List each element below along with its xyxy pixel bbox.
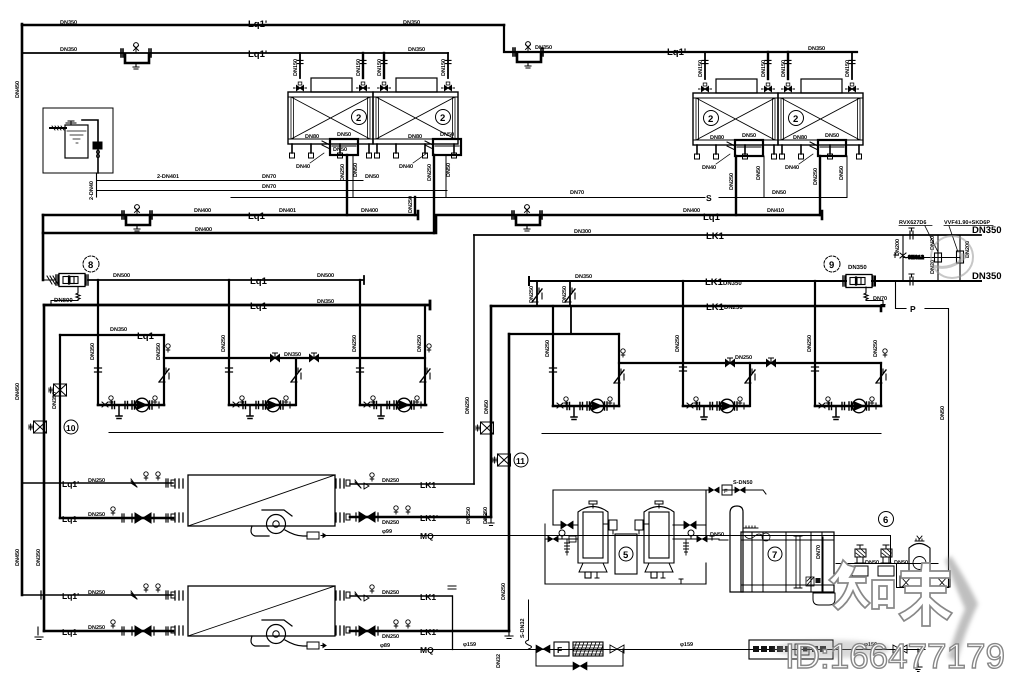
svg-text:DN250: DN250 (545, 340, 551, 357)
svg-text:DN410: DN410 (767, 208, 784, 214)
check valve circuit 2 (291, 368, 301, 382)
svg-text:DN50: DN50 (365, 174, 379, 180)
circuit 4 top header (509, 333, 619, 335)
expansion tank enclosure (43, 108, 113, 173)
wire MQ line chiller1 (325, 536, 891, 564)
wire pump8 bypass DN300 (51, 287, 80, 305)
check valve riser b (565, 288, 575, 302)
svg-text:DN450: DN450 (15, 383, 21, 400)
svg-text:φ159: φ159 (680, 642, 693, 648)
circuit 1 top header Lq1 DN350 (60, 334, 164, 336)
wire unit5 left riser top connect (544, 524, 546, 539)
svg-text:DN50: DN50 (484, 400, 490, 414)
svg-text:DN40: DN40 (296, 164, 310, 170)
svg-text:DN250: DN250 (735, 355, 752, 361)
wire Lq1 DN350 header thick (44, 301, 430, 309)
tower T2 number 2 (436, 110, 451, 125)
wire drain to header end (414, 197, 416, 215)
valve tank loop left (561, 521, 573, 529)
wire unit7 drain (813, 537, 835, 605)
wire T3 drain DN250 (735, 156, 737, 215)
wire valve station branch (903, 257, 960, 259)
wire circuit 3 right vertical (424, 305, 426, 405)
valve circuit 6 left (812, 367, 819, 371)
svg-text:DN50: DN50 (440, 132, 454, 138)
valve near line end (893, 645, 907, 653)
cooling tower T3 riser 2 (761, 52, 775, 92)
cooling tower T4 riser 2 (845, 52, 859, 92)
svg-text:LK1: LK1 (706, 231, 725, 242)
svg-text:Lq1': Lq1' (248, 19, 267, 30)
svg-text:6: 6 (883, 515, 888, 526)
wire line end elbow (914, 649, 922, 672)
svg-text:Lq1: Lq1 (62, 627, 77, 637)
air separator unit box (749, 640, 833, 659)
svg-text:DN50: DN50 (353, 163, 359, 177)
svg-text:φ99: φ99 (382, 529, 392, 535)
hatch drain left (565, 539, 570, 555)
svg-text:DN70: DN70 (262, 184, 276, 190)
wire chiller1 Lq1 return (60, 517, 173, 520)
valve circuit 2 left (226, 368, 233, 372)
wire circuit 3 left vertical (359, 280, 361, 405)
svg-text:2: 2 (356, 113, 361, 124)
svg-text:DN50: DN50 (337, 132, 351, 138)
label Γ (710, 536, 714, 540)
wire S-DN50 branch (706, 490, 766, 494)
fittings (394, 506, 410, 514)
svg-text:DN250: DN250 (382, 520, 399, 526)
butterfly valve chiller1 left (132, 513, 154, 523)
softener tanks unit 5 : outer loop (545, 490, 719, 584)
wire circuit 4 riser a (536, 281, 538, 306)
svg-text:LK1': LK1' (420, 513, 438, 523)
svg-text:DN40: DN40 (702, 165, 716, 171)
wire Lq1' second header DN350 left (22, 52, 448, 54)
svg-text:DN450: DN450 (15, 81, 21, 98)
svg-text:DN250: DN250 (88, 512, 105, 518)
gauge left (559, 530, 565, 539)
svg-text:F: F (724, 488, 728, 495)
svg-text:DN250: DN250 (483, 507, 489, 524)
cooling tower T2 riser 2 (441, 53, 455, 91)
filter assembly on right Lq1' header (513, 42, 543, 68)
svg-text:Lq1: Lq1 (248, 211, 266, 222)
svg-text:2-DN40: 2-DN40 (89, 181, 95, 200)
wire S-DN40 line (97, 180, 364, 182)
valve tank loop right (684, 521, 696, 529)
instrument box right b (493, 453, 528, 467)
svg-text:DN350: DN350 (156, 343, 162, 360)
wire circuit 5 right vertical (749, 363, 751, 406)
check valve circuit 6 (876, 369, 886, 383)
valve circuit 4 left (550, 368, 557, 372)
svg-text:DN80: DN80 (710, 135, 724, 141)
wire DN350 LK1 header right (529, 277, 981, 285)
pump unit 8 (43, 256, 99, 287)
valve circuit 5 left (680, 367, 687, 371)
label DN40 with leader (785, 154, 813, 171)
wire chiller2 Lq1 return (44, 630, 173, 633)
wire DN400 lower header and jog (43, 211, 822, 233)
skid base unit 6 (900, 576, 950, 587)
filter F box (554, 642, 569, 656)
wire bottom drain line (325, 649, 925, 651)
svg-text:DN250: DN250 (729, 173, 735, 190)
fittings chiller1 top-left (131, 472, 168, 487)
wire drain from expansion tank (96, 173, 98, 197)
svg-text:DN40: DN40 (399, 164, 413, 170)
small box left (569, 536, 576, 542)
wire chiller1 LK1' return (350, 516, 491, 519)
wire riser to chiller1 (59, 335, 61, 518)
svg-text:DN350: DN350 (90, 343, 96, 360)
svg-text:DN250: DN250 (466, 507, 472, 524)
pump row circuit 3 (360, 396, 426, 419)
svg-text:φ159: φ159 (463, 642, 476, 648)
fittings chiller1 top-right (355, 473, 374, 489)
svg-text:8: 8 (88, 260, 93, 271)
valve on drain (536, 645, 550, 653)
water treatment unit 7 frame (730, 506, 834, 592)
wire circuit 4 right vertical (618, 334, 620, 406)
gauge circuit 6 (883, 349, 887, 357)
ground tick LK1' end (486, 513, 494, 526)
svg-text:5: 5 (623, 550, 629, 561)
gauge circuit 1 (166, 344, 170, 352)
svg-text:Lq1: Lq1 (137, 331, 155, 342)
check valve circuit 5 (745, 369, 755, 383)
svg-text:DN40: DN40 (785, 165, 799, 171)
drain hatch box (806, 577, 814, 586)
svg-text:DN350: DN350 (36, 549, 42, 566)
svg-text:DN50: DN50 (940, 406, 946, 420)
label DN40 with leader (702, 154, 730, 171)
svg-text:DN50: DN50 (742, 133, 756, 139)
svg-text:P: P (910, 304, 916, 314)
svg-text:DN150: DN150 (441, 59, 447, 76)
svg-text:DN150: DN150 (698, 60, 704, 77)
valve station vertical DN200 (902, 235, 904, 281)
wire Lq1 DN400 header left (43, 211, 418, 219)
svg-text:2-DN401: 2-DN401 (157, 174, 179, 180)
gauge right (688, 530, 694, 539)
gauge circuit 3 (427, 344, 431, 352)
svg-text:DN150: DN150 (845, 60, 851, 77)
valves feed left (548, 536, 558, 542)
svg-text:Lq1': Lq1' (667, 47, 686, 58)
wire circuit 4 riser b (569, 281, 571, 306)
wire chiller2 LK1' return (350, 630, 509, 633)
svg-text:DN80: DN80 (793, 135, 807, 141)
svg-text:DN50: DN50 (756, 166, 762, 180)
wire Lq1 DN500 header (88, 276, 364, 284)
wire DN450 left main riser (21, 24, 24, 595)
pump row circuit 5 (683, 397, 749, 420)
butterfly valve chiller2 right (356, 626, 378, 636)
svg-text:DN250: DN250 (340, 164, 346, 181)
svg-text:DN450: DN450 (15, 549, 21, 566)
check valve riser a (532, 288, 542, 302)
left group base line (109, 432, 443, 434)
tower T1 number 2 (352, 110, 367, 125)
svg-text:DN250: DN250 (529, 286, 535, 303)
svg-text:DN350: DN350 (575, 274, 592, 280)
manifold valve 4 (767, 358, 776, 367)
svg-text:DN250: DN250 (724, 304, 743, 311)
svg-text:DN70: DN70 (262, 174, 276, 180)
check valve circuit 1 (159, 368, 169, 382)
svg-text:S-DN50: S-DN50 (733, 480, 753, 486)
svg-text:DN70: DN70 (816, 545, 822, 559)
svg-text:DN350: DN350 (60, 47, 77, 53)
label VVF41.90+SKD6P (944, 220, 993, 252)
wire circuit 1 left vertical (97, 280, 99, 405)
chiller 2 body (171, 586, 350, 636)
pump row circuit 6 (815, 397, 881, 420)
svg-text:DN350: DN350 (60, 20, 77, 26)
chiller 2 pump (251, 620, 326, 649)
label DN40 with leader (399, 153, 427, 170)
manifold DN350 (164, 357, 425, 359)
fittings (394, 620, 410, 628)
instrument box with sensor left a (49, 384, 67, 396)
cooling tower T3 (693, 79, 778, 159)
watermark logo circle top right (931, 236, 973, 278)
hatch drain right (684, 539, 689, 555)
wire pump suction line (836, 563, 938, 565)
svg-text:DN350: DN350 (972, 225, 1002, 236)
wire DN70 line (97, 190, 448, 192)
svg-text:MQ: MQ (420, 531, 434, 541)
svg-text:Lq1: Lq1 (250, 301, 268, 312)
wire bypass loop (536, 649, 623, 666)
wire left riser to pump 8 (42, 215, 45, 280)
pump row circuit 4 (553, 397, 619, 420)
svg-text:DN70: DN70 (570, 190, 584, 196)
watermark character zhi (829, 560, 894, 610)
svg-text:LK1: LK1 (705, 277, 724, 288)
svg-text:LK1: LK1 (420, 592, 436, 602)
svg-text:DN350: DN350 (110, 327, 127, 333)
svg-text:DN70: DN70 (873, 296, 887, 302)
svg-text:DN350: DN350 (408, 47, 425, 53)
svg-text:DN250: DN250 (408, 196, 414, 213)
valve station vertical 2 (937, 235, 939, 281)
wire circuit 5 left vertical (682, 281, 684, 406)
svg-text:DN50: DN50 (839, 166, 845, 180)
svg-text:DN250: DN250 (465, 397, 471, 414)
softener tank B (644, 501, 674, 578)
valve on drain right of boxes (610, 645, 624, 653)
pump unit 9 (824, 256, 875, 288)
label 6 (879, 512, 894, 527)
fittings chiller2 top-left (131, 584, 168, 599)
svg-text:DN350: DN350 (284, 352, 301, 358)
wire S-DN32 drop (526, 600, 532, 649)
svg-text:DN350: DN350 (317, 299, 334, 305)
svg-text:Lq1': Lq1' (248, 49, 267, 60)
check valve circuit 4 (614, 369, 624, 383)
gauge circuit 4 (621, 349, 625, 357)
F box small (722, 485, 732, 495)
wire chiller1 LK1 out (350, 483, 474, 485)
wire circuit 6 left vertical (814, 281, 816, 406)
union (448, 586, 456, 589)
wire DN300 LK1 header (474, 234, 981, 236)
filter assembly on Lq1 DN400 right (512, 205, 542, 231)
valve 9E612 (894, 253, 924, 262)
manifold valve 2 (310, 353, 319, 362)
svg-text:9: 9 (829, 260, 834, 271)
wire circuit 4 drop b (570, 306, 572, 334)
manifold valve 1 (271, 353, 280, 362)
fittings chiller2 top-right (355, 585, 374, 601)
svg-text:DN500: DN500 (317, 273, 334, 279)
svg-text:DN250: DN250 (813, 168, 819, 185)
svg-text:φ89: φ89 (380, 643, 390, 649)
svg-text:DN50: DN50 (333, 147, 347, 153)
svg-text:2: 2 (793, 114, 798, 125)
wire riser LK1' from header (490, 306, 493, 517)
label DN40 with leader (296, 153, 324, 170)
svg-text:DN150: DN150 (377, 59, 383, 76)
tower T2 basin piping (425, 139, 461, 155)
wire Lq1' top header DN350 (22, 24, 504, 27)
svg-text:11: 11 (516, 456, 525, 466)
ground tick (35, 627, 43, 640)
svg-text:DN350: DN350 (723, 280, 742, 287)
wire left riser DN350 to chiller2 (43, 305, 46, 631)
wire P drop connect (897, 564, 949, 588)
svg-text:DN350: DN350 (808, 46, 825, 52)
ground tick chiller2 LK1' (505, 631, 513, 639)
svg-text:LK1': LK1' (420, 627, 438, 637)
svg-text:7: 7 (772, 550, 777, 561)
svg-text:DN250: DN250 (675, 335, 681, 352)
fittings chiller1 bottom-left (111, 507, 168, 522)
instrument box right a (476, 422, 494, 434)
cooling tower T2 riser 1 (377, 53, 391, 91)
svg-text:DN80: DN80 (408, 134, 422, 140)
manifold valve 3 (726, 358, 735, 367)
wire jog to right header (504, 25, 857, 52)
svg-text:DN250: DN250 (221, 335, 227, 352)
svg-text:DN250: DN250 (382, 590, 399, 596)
svg-text:DN800: DN800 (54, 297, 73, 304)
svg-text:DN250: DN250 (873, 340, 879, 357)
svg-text:DN32: DN32 (496, 654, 502, 668)
dosing pump A (852, 545, 868, 576)
wire riser to chiller2 LK1' (508, 334, 511, 631)
valve on bypass (573, 662, 587, 670)
hatched filter box (573, 642, 603, 656)
wire P line (896, 281, 949, 588)
filter assembly on Lq1 DN400 left (122, 205, 152, 231)
wire circuit 6 right vertical (880, 363, 882, 406)
cooling tower T4 (778, 79, 863, 159)
svg-text:DN500: DN500 (113, 273, 130, 279)
wire riser DN300 to chiller1 (473, 235, 475, 484)
svg-text:2: 2 (708, 114, 713, 125)
wire T2 drain DN50 (445, 155, 447, 197)
wire LK1 DN250 header (491, 306, 884, 311)
cooling tower T2 (373, 78, 458, 158)
svg-text:DN250: DN250 (501, 583, 507, 600)
svg-text:DN350: DN350 (848, 264, 867, 271)
svg-text:DN400: DN400 (194, 208, 211, 214)
svg-text:Lq1: Lq1 (62, 514, 77, 524)
watermark character mo (899, 563, 952, 626)
wire LK1 drop to drain (452, 596, 454, 650)
chiller 1 pump (251, 510, 326, 539)
control valve body (957, 251, 964, 263)
fittings chiller2 bottom-left (111, 620, 168, 635)
valve station vertical 3 (959, 235, 961, 281)
pump row circuit 1 (98, 396, 164, 419)
wire T3 drain DN50 (763, 156, 765, 197)
valves S-DN50 b (735, 487, 745, 493)
valve on DN300 header (909, 228, 914, 239)
chiller 1 body (171, 475, 350, 526)
svg-text:MQ: MQ (420, 645, 434, 655)
wire chiller1 Lq1' supply (22, 482, 173, 484)
valves S-DN50 (709, 487, 719, 493)
svg-text:DN80: DN80 (305, 134, 319, 140)
svg-text:DN350: DN350 (403, 20, 420, 26)
label RVX627D6 (899, 220, 938, 252)
watermark swoosh (774, 556, 978, 662)
tower T4 basin piping (810, 140, 846, 156)
svg-text:DN150: DN150 (761, 60, 767, 77)
wire T4 drain DN50 (846, 156, 848, 197)
cooling tower T3 riser 1 (698, 52, 712, 92)
svg-text:DN400: DN400 (683, 208, 700, 214)
svg-text:DN150: DN150 (293, 59, 299, 76)
solenoid valve (935, 253, 942, 262)
valve circuit 1 left (95, 368, 102, 372)
svg-text:Lq1': Lq1' (62, 479, 79, 489)
cooling tower T1 (288, 78, 373, 158)
svg-text:DN250: DN250 (352, 335, 358, 352)
tower T4 number 2 (789, 111, 804, 126)
svg-text:DN350: DN350 (52, 392, 58, 409)
union on Lq1' (41, 591, 44, 599)
tower T3 number 2 (704, 111, 719, 126)
instrument box with sensor left b (29, 420, 78, 434)
filter assembly on left Lq1' header (121, 43, 151, 69)
label Γ tick bottom (679, 579, 683, 584)
wire chiller2 Lq1' supply (22, 594, 173, 596)
svg-text:DN400: DN400 (195, 227, 212, 233)
wire circuit 2 right vertical (295, 358, 297, 405)
right group base line (542, 433, 881, 435)
svg-text:DN50: DN50 (772, 190, 786, 196)
svg-text:DN350: DN350 (972, 271, 1002, 282)
valves feed right (697, 536, 707, 542)
svg-text:S: S (706, 193, 712, 203)
tower T1 basin piping (322, 139, 358, 155)
valve circuit 3 left (357, 368, 364, 372)
svg-text:DN150: DN150 (356, 59, 362, 76)
svg-text:Lq1: Lq1 (703, 212, 721, 223)
solution tank unit 6 (909, 536, 930, 575)
wire circuit 2 left vertical (228, 280, 230, 405)
wire T1 drain DN50 (352, 155, 354, 197)
butterfly valve chiller1 right (356, 512, 378, 522)
svg-text:DN250: DN250 (807, 335, 813, 352)
svg-text:DN250: DN250 (417, 335, 423, 352)
